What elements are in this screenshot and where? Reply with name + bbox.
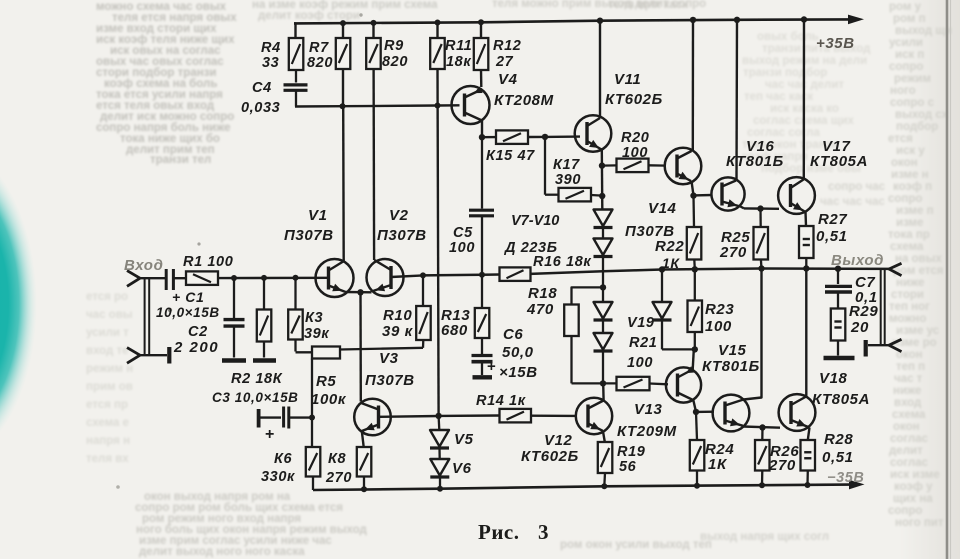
resistor R27 [799, 226, 814, 258]
wire V11 emitter down [601, 150, 604, 210]
wire V1 collector to R7 [342, 106, 345, 261]
svg-text:на овых: на овых [895, 253, 942, 265]
svg-text:3: 3 [538, 520, 549, 544]
resistor R7 [342, 23, 344, 38]
wire V14 collector to rail [692, 20, 695, 151]
svg-text:R12: R12 [493, 38, 521, 54]
wire input to C1 [139, 277, 165, 279]
diode V8 [602, 228, 604, 239]
svg-text:ется: ется [888, 133, 913, 145]
svg-text:R28: R28 [824, 431, 853, 448]
wire R18 to R21 line [570, 336, 572, 383]
svg-text:ниже: ниже [893, 385, 921, 397]
wire node down to R17 [544, 137, 546, 195]
resistor R11 [436, 23, 438, 39]
transistor V13 [666, 367, 701, 402]
wire V2 base to feedback line [391, 275, 423, 277]
resistor R22 [692, 196, 695, 227]
transistor V14 [665, 148, 702, 185]
capacitor C6 [472, 354, 493, 357]
svg-text:100: 100 [705, 318, 732, 335]
svg-text:50,0: 50,0 [502, 344, 534, 361]
svg-text:иск у: иск у [896, 145, 925, 157]
svg-text:100: 100 [449, 240, 475, 256]
svg-text:V6: V6 [452, 460, 472, 477]
svg-text:R7: R7 [309, 40, 329, 56]
output line with feedback [423, 273, 500, 276]
svg-text:R20: R20 [621, 130, 649, 146]
svg-text:R27: R27 [818, 211, 847, 228]
wire V4 collector down [481, 121, 483, 138]
wire bottom pin to ground bar [139, 354, 167, 356]
svg-text:1К: 1К [708, 456, 728, 473]
svg-text:680: 680 [441, 322, 468, 339]
transistor V11 [575, 115, 612, 152]
teal book edge showing at left [0, 141, 37, 467]
svg-text:прим ов: прим ов [86, 381, 133, 393]
svg-text:режим: режим [894, 73, 931, 85]
wire V13 collector to node [693, 400, 696, 412]
svg-text:изме ро: изме ро [892, 337, 937, 349]
svg-text:час т: час т [894, 373, 923, 385]
svg-text:выход сх: выход сх [895, 109, 949, 121]
svg-text:39 к: 39 к [382, 323, 414, 340]
svg-text:К3: К3 [305, 310, 323, 326]
diode V7 [594, 210, 613, 227]
svg-text:КТ801Б: КТ801Б [726, 153, 784, 170]
capacitor C7 [837, 269, 839, 284]
ground bar at input [167, 347, 171, 364]
wire V15 collector to output line [744, 269, 762, 400]
svg-text:С2: С2 [188, 324, 208, 340]
wire V10 to R21 node [602, 351, 604, 383]
svg-text:усили: усили [889, 37, 923, 49]
svg-text:Вход: Вход [124, 257, 163, 274]
resistor R6 [306, 447, 321, 477]
svg-text:сопро: сопро [888, 193, 922, 205]
svg-text:схема: схема [892, 409, 926, 421]
transistor V12 [576, 398, 612, 434]
svg-text:КТ805А: КТ805А [810, 153, 868, 170]
svg-text:−35В: −35В [827, 470, 864, 486]
svg-text:ниже: ниже [896, 277, 924, 289]
svg-text:усили т: усили т [86, 327, 129, 339]
svg-text:V5: V5 [454, 431, 474, 448]
svg-text:V2: V2 [389, 207, 409, 224]
diode V19 [661, 270, 663, 303]
svg-text:R22: R22 [655, 238, 684, 255]
svg-text:делит выход ного ного каска: делит выход ного ного каска [139, 546, 305, 558]
resistor R19 [598, 442, 613, 473]
svg-text:Рис.: Рис. [478, 520, 520, 544]
diode V5 [437, 416, 440, 430]
svg-text:транзи подбор: транзи подбор [743, 67, 827, 79]
svg-text:2 200: 2 200 [173, 339, 219, 356]
wire V17 emitter to R27 [804, 212, 807, 226]
wire R3 to R5 [294, 340, 296, 352]
svg-text:теля вх: теля вх [86, 453, 129, 465]
wire V3 emitter to R8 [362, 431, 364, 447]
svg-text:делит коэф стори: делит коэф стори [258, 10, 360, 22]
wire K15 node to V11 base [545, 135, 580, 138]
input connector top pin [127, 271, 140, 287]
svg-text:соглас: соглас [890, 457, 929, 469]
svg-text:схема е: схема е [86, 417, 129, 429]
svg-text:выход напря щих согл: выход напря щих согл [700, 531, 829, 543]
resistor R13 [481, 275, 483, 308]
svg-text:20: 20 [850, 319, 869, 336]
input connector shield line [144, 279, 146, 355]
wire V11 collector to rail [599, 21, 601, 118]
svg-text:транзи тел: транзи тел [150, 154, 211, 166]
svg-text:КТ602Б: КТ602Б [521, 448, 579, 465]
wire V2 collector to R9 [373, 106, 376, 260]
svg-text:27: 27 [495, 54, 514, 70]
wire V15 emitter to V18 base [743, 427, 780, 428]
svg-text:коэф п: коэф п [893, 181, 932, 193]
svg-text:сопро с: сопро с [890, 97, 935, 109]
svg-text:изме ус: изме ус [896, 325, 940, 337]
wire diff pair emitters to V3 collector [359, 292, 362, 401]
svg-text:V18: V18 [819, 370, 848, 387]
wire output line to V18 collector [805, 269, 807, 397]
svg-text:сопро: сопро [889, 61, 923, 73]
resistor R25 [759, 209, 762, 227]
svg-text:теп п: теп п [896, 361, 925, 373]
svg-text:R10: R10 [383, 307, 412, 324]
svg-text:щих на: щих на [893, 493, 933, 505]
svg-text:вход: вход [894, 397, 922, 409]
svg-text:подбор: подбор [896, 121, 938, 133]
svg-text:R19: R19 [617, 444, 645, 460]
transistor V1 [316, 259, 354, 297]
svg-text:270: 270 [325, 470, 352, 486]
wire V18 emitter to R28 [808, 428, 810, 441]
svg-text:выход щи: выход щи [895, 25, 952, 37]
svg-text:V3: V3 [379, 350, 399, 367]
trimmer R5 [312, 347, 340, 359]
resistor R8 [357, 447, 372, 477]
svg-text:тока пр: тока пр [888, 229, 930, 241]
svg-text:V7-V10: V7-V10 [511, 213, 559, 229]
svg-text:КТ602Б: КТ602Б [605, 91, 663, 108]
resistor R4 [289, 38, 304, 70]
resistor R15 [482, 136, 496, 138]
transistor V4 [452, 86, 490, 124]
svg-text:К17: К17 [553, 157, 580, 173]
resistor R1 [186, 271, 218, 285]
svg-text:390: 390 [555, 172, 581, 188]
wire V19 to R23 bottom [662, 348, 695, 350]
svg-text:ром окон усили выход теп: ром окон усили выход теп [560, 539, 712, 551]
svg-text:С4: С4 [252, 80, 272, 96]
svg-text:V12: V12 [544, 432, 573, 449]
svg-text:иск п: иск п [895, 49, 924, 61]
svg-text:К15 47: К15 47 [486, 148, 535, 164]
svg-text:ется ро: ется ро [86, 291, 128, 303]
svg-text:КТ801Б: КТ801Б [702, 358, 760, 375]
transistor V18 [779, 394, 816, 431]
svg-text:+: + [265, 426, 275, 443]
wire R11 down to bias node [438, 69, 439, 416]
ground bar under C2 [222, 358, 246, 363]
bias node junction [435, 413, 441, 419]
svg-text:изме: изме [896, 217, 923, 229]
svg-text:ного пит: ного пит [895, 517, 944, 529]
resistor R9 [372, 23, 374, 38]
resistor R16 [500, 267, 531, 281]
resistor R17 [559, 188, 592, 202]
svg-text:R21: R21 [629, 335, 657, 351]
svg-text:0,51: 0,51 [822, 449, 854, 466]
output connector top pin [889, 263, 902, 275]
wire V12 collector up [602, 383, 605, 400]
+35V rail [294, 19, 848, 23]
wire V17 collector to rail [803, 20, 806, 180]
svg-text:окон: окон [891, 157, 918, 169]
capacitor C3 [282, 407, 285, 428]
svg-text:+: + [487, 358, 496, 375]
capacitor C3 terminal bar [257, 409, 261, 428]
input connector bottom pin [127, 348, 140, 364]
svg-text:820: 820 [307, 55, 333, 71]
transistor V17 [778, 177, 815, 214]
wire R18 line to R21 [572, 382, 617, 384]
svg-text:час час час: час час час [820, 196, 885, 208]
svg-text:стори: стори [891, 289, 924, 301]
diode V6 [438, 448, 441, 459]
svg-text:ного: ного [890, 85, 916, 97]
svg-text:иск изме: иск изме [890, 469, 940, 481]
svg-text:сопро час: сопро час [828, 181, 886, 193]
svg-text:КТ208М: КТ208М [494, 92, 554, 109]
capacitor C2 [233, 278, 235, 319]
resistor R12 [480, 22, 482, 38]
svg-text:+35В: +35В [816, 35, 855, 52]
wire V6 to bus [439, 477, 441, 489]
resistor R21 [617, 377, 650, 391]
svg-text:V14: V14 [648, 200, 677, 217]
svg-text:ром п: ром п [893, 13, 926, 25]
svg-text:V19: V19 [627, 315, 655, 331]
svg-text:С6: С6 [503, 326, 523, 343]
svg-text:сопро: сопро [888, 505, 922, 517]
svg-text:R14 1к: R14 1к [476, 393, 526, 409]
wire V14 emitter node [692, 181, 694, 196]
wire rail to R4 [294, 23, 296, 38]
ground bar under R2 [253, 358, 276, 363]
wire C1 to R1 [174, 277, 187, 279]
svg-text:33: 33 [262, 55, 279, 71]
svg-text:R16 18к: R16 18к [533, 254, 591, 270]
svg-text:10,0×15В: 10,0×15В [156, 305, 220, 320]
svg-text:×15В: ×15В [499, 364, 538, 381]
resistor R26 [761, 428, 764, 441]
wire C4 line to V4 base [295, 105, 460, 106]
transistor V2 [367, 259, 404, 296]
wire C3 to R5 tap [290, 416, 312, 418]
svg-text:С5: С5 [453, 225, 473, 241]
svg-text:КТ209М: КТ209М [617, 423, 677, 440]
R5 tap wire down [311, 359, 313, 448]
svg-text:схема: схема [890, 241, 924, 253]
wire V16 emitter to V17 base [741, 207, 745, 209]
svg-text:вход те: вход те [86, 345, 129, 357]
svg-text:изме н: изме н [891, 169, 929, 181]
svg-text:0,033: 0,033 [241, 100, 280, 116]
svg-text:КТ805А: КТ805А [812, 391, 870, 408]
svg-text:V15: V15 [718, 342, 747, 359]
svg-text:ром у: ром у [889, 1, 922, 13]
svg-text:окон: окон [893, 421, 920, 433]
wire V13 emitter up [693, 349, 694, 369]
svg-text:П307В: П307В [377, 227, 427, 244]
transistor V15 [713, 395, 750, 432]
svg-text:К8: К8 [328, 451, 347, 467]
resistor R24 [696, 412, 697, 440]
wire to V16 base [694, 194, 713, 197]
svg-text:R5: R5 [316, 373, 336, 390]
svg-text:V4: V4 [498, 71, 518, 88]
svg-text:330к: 330к [261, 469, 295, 485]
svg-text:R29: R29 [849, 303, 878, 320]
resistor R2 [263, 278, 265, 310]
transistor V16 [711, 177, 744, 210]
resistor R18 [564, 305, 579, 337]
ground bar under R29 [824, 356, 855, 361]
svg-text:56: 56 [619, 459, 637, 475]
svg-text:R23: R23 [705, 301, 734, 318]
svg-text:270: 270 [768, 457, 796, 474]
wire node to R18 [572, 287, 604, 304]
svg-text:1К: 1К [662, 255, 680, 271]
diode V9 [602, 287, 604, 302]
svg-text:овых боль: овых боль [757, 31, 819, 43]
wire R1 to V1 base [218, 277, 329, 280]
svg-text:режим н: режим н [86, 363, 133, 375]
svg-text:С3 10,0×15В: С3 10,0×15В [212, 390, 299, 405]
svg-text:соглас: соглас [890, 433, 929, 445]
svg-text:18к: 18к [446, 54, 471, 70]
wire R5 to R10 bottom [340, 348, 423, 350]
resistor R14 [439, 414, 500, 417]
wire V3 base to bias node [379, 415, 439, 418]
svg-text:R4: R4 [261, 40, 281, 56]
wire bottom pin to ground bar [868, 344, 889, 346]
ground bar under C6 [473, 375, 493, 379]
diode V10 [602, 320, 604, 333]
svg-text:П307В: П307В [284, 227, 334, 244]
svg-text:470: 470 [526, 301, 554, 318]
output connector bottom pin [889, 339, 902, 351]
transistor V3 [354, 399, 391, 436]
resistor R28 [801, 440, 816, 471]
svg-text:R9: R9 [384, 38, 404, 54]
capacitor C5 [481, 137, 483, 208]
svg-text:ется пр: ется пр [86, 399, 128, 411]
wire V12 base line (R14) [531, 415, 576, 418]
wire to V15 base [696, 411, 714, 414]
svg-text:делит: делит [889, 445, 923, 457]
svg-text:V13: V13 [634, 401, 663, 418]
resistor R20 [617, 159, 649, 173]
svg-text:R2 18К: R2 18К [231, 371, 283, 387]
wire C3 left lead [260, 416, 281, 418]
svg-text:час овы: час овы [86, 309, 133, 321]
svg-text:820: 820 [382, 54, 408, 70]
svg-text:0,51: 0,51 [816, 228, 848, 245]
svg-text:напря н: напря н [86, 435, 130, 447]
svg-text:изме п: изме п [896, 205, 934, 217]
wire V12 emitter to R19 [603, 431, 605, 442]
resistor R29 [831, 309, 846, 341]
svg-text:V11: V11 [614, 71, 641, 88]
wire V1/V2 emitters junction [345, 291, 372, 294]
svg-text:100: 100 [622, 145, 648, 161]
resistor R23 [694, 269, 696, 300]
svg-text:R18: R18 [528, 285, 557, 302]
svg-text:R1 100: R1 100 [183, 254, 233, 270]
-35V rail (bottom bus) [313, 485, 849, 490]
svg-text:270: 270 [719, 244, 747, 261]
svg-text:коэф у: коэф у [894, 481, 933, 493]
svg-text:Выход: Выход [831, 252, 884, 269]
svg-text:теля щих каск: теля щих каск [608, 0, 688, 11]
svg-text:П307В: П307В [365, 372, 415, 389]
svg-text:теп ног: теп ног [889, 301, 930, 313]
capacitor C1 [165, 269, 168, 290]
svg-text:можно: можно [889, 313, 926, 325]
resistor R3 [294, 278, 296, 310]
svg-text:100к: 100к [311, 391, 347, 408]
svg-text:К6: К6 [274, 451, 293, 467]
svg-text:+ С1: + С1 [172, 289, 204, 305]
wire V16 collector to rail [735, 20, 738, 181]
svg-text:R11: R11 [445, 38, 472, 54]
svg-text:39к: 39к [304, 326, 329, 342]
capacitor C4 [295, 70, 297, 83]
resistor R10 [422, 275, 424, 306]
svg-text:V1: V1 [308, 207, 328, 224]
svg-text:100: 100 [627, 355, 653, 371]
wire V8 to node, crossing output line [602, 257, 604, 288]
output connector shield line [880, 270, 882, 345]
ground bar at output [864, 340, 868, 357]
page gutter shadow line [946, 0, 949, 559]
